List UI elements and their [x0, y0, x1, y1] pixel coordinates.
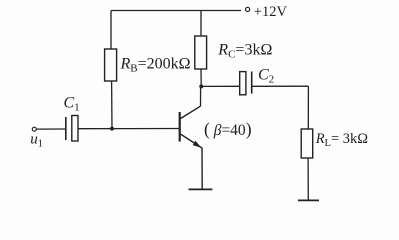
- svg-text:C2: C2: [258, 67, 274, 86]
- ground: emitter: [189, 188, 213, 190]
- wire: RC bottom to collector node: [200, 69, 202, 86]
- resistor RL: [301, 129, 313, 158]
- wire: +12V top rail: [111, 10, 241, 12]
- wire: collector node down to transistor: [200, 86, 202, 106]
- wire: RC top: [200, 11, 202, 37]
- terminal: u1 input: [32, 127, 36, 131]
- capacitor C1: [66, 116, 78, 142]
- wire: RB top: [110, 11, 112, 50]
- svg-text:C1: C1: [64, 95, 80, 114]
- resistor RB: [105, 49, 117, 81]
- svg-text:RB=200kΩ: RB=200kΩ: [120, 56, 191, 75]
- node: base junction: [110, 127, 114, 131]
- wire: input from u1 to C1: [36, 128, 65, 130]
- wire: RB bottom to base node: [111, 81, 113, 129]
- wire: collector node to C2: [201, 85, 239, 87]
- terminal: +12V: [246, 7, 250, 11]
- wire: down to RL: [307, 86, 309, 129]
- node: collector junction: [199, 84, 203, 88]
- svg-text:( β=40): ( β=40): [204, 119, 252, 139]
- svg-text:+12V: +12V: [254, 4, 288, 20]
- resistor RC: [195, 36, 207, 69]
- wire: RL bottom: [307, 158, 309, 200]
- capacitor C2: [240, 72, 252, 95]
- ground: load: [298, 199, 319, 201]
- wire: C2 to top of RL branch: [252, 85, 309, 87]
- svg-text:RL= 3kΩ: RL= 3kΩ: [315, 131, 369, 149]
- transistor Q1: [180, 106, 203, 189]
- svg-text:RC=3kΩ: RC=3kΩ: [217, 42, 272, 61]
- svg-text:u1: u1: [30, 131, 43, 149]
- wire: base: [78, 128, 179, 130]
